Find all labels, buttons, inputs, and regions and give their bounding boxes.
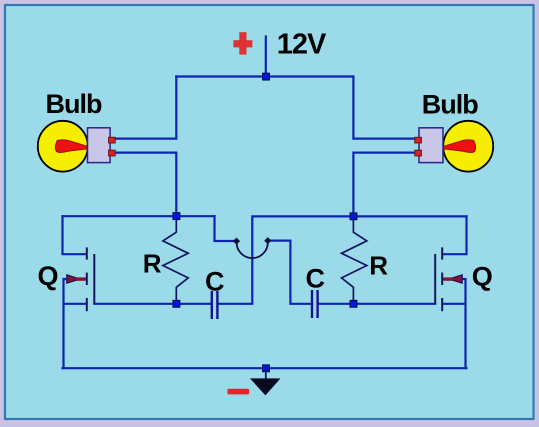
ground minus symbol [228,389,250,395]
svg-text:Q: Q [472,262,493,292]
wire: top supply rail [176,75,353,77]
svg-text:Bulb: Bulb [46,89,102,119]
svg-text:12V: 12V [277,28,327,60]
node: right drain junction [350,213,357,220]
node: hop dot left [233,237,240,244]
node: hop dot right [264,237,271,244]
wire: left cap to right drain (vertical crossover) [218,216,353,303]
transistor Q1 (left MOSFET) [67,247,95,311]
wire: left gate lead [94,303,211,305]
wire: left drain drop [63,216,87,254]
capacitor C (right) plates [312,290,318,318]
supply plus symbol [233,32,252,54]
resistor R (right) [342,216,367,303]
wire: left bulb bottom lead [114,153,177,217]
wire: hop arc [237,243,268,259]
wire: dot2 to right cap [271,241,311,304]
svg-text:C: C [205,267,225,297]
node: left gate junction [173,300,180,307]
svg-text:C: C [306,263,326,293]
wire: crossover feed from left drain [215,216,234,241]
wire: right drain drop [443,216,467,254]
wire: right bulb bottom lead [353,153,415,217]
wire: left bulb top lead [114,77,177,139]
wire: right gate lead [318,303,435,305]
ground symbol [250,369,281,395]
wire: left source/body [64,279,87,368]
svg-text:Bulb: Bulb [422,90,478,120]
node: left drain junction [173,213,180,220]
wire: +12V supply stem [265,37,267,77]
transistor Q2 (right MOSFET) [435,247,462,311]
node: supply junction [263,73,270,80]
bulb (right) [415,121,493,172]
wire: ground rail [63,367,467,369]
capacitor C (left) plates [212,291,218,319]
svg-text:R: R [369,250,388,280]
wire: right drain rail [353,215,466,217]
wire: left drain rail [63,215,215,217]
svg-text:R: R [143,249,162,279]
bulb (left) [38,121,115,172]
wire: right source/body [443,279,466,368]
resistor R (left) [163,216,188,304]
wire: right bulb top lead [353,77,415,139]
svg-text:Q: Q [38,261,59,291]
node: right gate junction [350,300,357,307]
node: ground junction [263,365,270,372]
